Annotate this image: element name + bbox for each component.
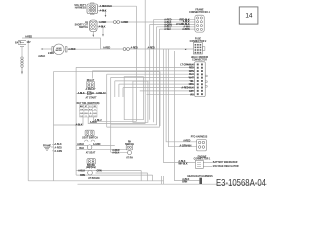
svg-text:A-WH: A-WH xyxy=(164,28,170,31)
svg-text:◄: ◄ xyxy=(184,48,186,51)
svg-text:SWITCH: SWITCH xyxy=(125,144,134,146)
svg-text:CONNECTOR NO.1: CONNECTOR NO.1 xyxy=(189,12,210,14)
svg-text:A-RED: A-RED xyxy=(131,47,138,50)
svg-text:SWITCH: SWITCH xyxy=(79,27,88,29)
svg-text:A-BLK: A-BLK xyxy=(77,143,84,146)
svg-text:A-BLK: A-BLK xyxy=(55,143,62,146)
svg-text:A-BLU: A-BLU xyxy=(95,119,102,122)
svg-text:BRN: BRN xyxy=(80,174,85,177)
svg-text:A-RELAY: A-RELAY xyxy=(86,88,96,91)
svg-text:CONNECTOR 2: CONNECTOR 2 xyxy=(190,41,207,43)
svg-text:A-RED: A-RED xyxy=(68,48,75,51)
svg-text:GRN: GRN xyxy=(97,170,102,173)
svg-text:M1: M1 xyxy=(94,106,97,108)
svg-text:AT RH: AT RH xyxy=(126,156,133,159)
svg-text:PTO HARNESS: PTO HARNESS xyxy=(191,135,208,138)
svg-text:A-RED-BLK: A-RED-BLK xyxy=(100,5,113,8)
svg-text:METER: METER xyxy=(56,50,63,52)
svg-text:BATTERY ENERGIZER: BATTERY ENERGIZER xyxy=(213,161,238,164)
svg-text:A-RED: A-RED xyxy=(148,47,155,50)
svg-text:HEADLIGHT HARNESS: HEADLIGHT HARNESS xyxy=(187,175,213,178)
svg-text:CONNECTOR 1: CONNECTOR 1 xyxy=(194,159,211,161)
svg-text:14: 14 xyxy=(245,12,253,19)
svg-text:A-RELAY: A-RELAY xyxy=(96,92,106,95)
svg-text:A-RED: A-RED xyxy=(121,21,128,24)
svg-text:HARNESS: HARNESS xyxy=(75,7,87,10)
svg-text:A-GRN: A-GRN xyxy=(55,150,63,153)
svg-text:FRAME: FRAME xyxy=(43,144,52,147)
svg-text:A-RED: A-RED xyxy=(183,140,190,143)
svg-text:AT BRAKE: AT BRAKE xyxy=(88,177,100,180)
svg-text:VIO: VIO xyxy=(190,93,194,96)
svg-text:12V: 12V xyxy=(27,42,32,44)
svg-text:A-BLK: A-BLK xyxy=(38,55,45,58)
svg-text:SEAT SWITCH: SEAT SWITCH xyxy=(82,137,98,140)
svg-text:WH-BLK: WH-BLK xyxy=(178,163,187,166)
svg-text:KEY SW. (IGNITION): KEY SW. (IGNITION) xyxy=(77,102,100,105)
svg-text:A-BLK: A-BLK xyxy=(75,123,82,126)
svg-text:SWITCH: SWITCH xyxy=(86,167,95,169)
svg-text:AT START: AT START xyxy=(85,96,97,99)
svg-text:A-BLK: A-BLK xyxy=(78,92,85,95)
svg-text:A-BLK: A-BLK xyxy=(99,25,106,28)
svg-text:A-RED: A-RED xyxy=(99,21,106,24)
svg-text:A-BLK: A-BLK xyxy=(112,152,119,155)
svg-text:A-RED: A-RED xyxy=(55,147,63,150)
svg-text:L1: L1 xyxy=(89,106,91,108)
svg-text:BRN: BRN xyxy=(182,181,187,184)
svg-text:A-GRN: A-GRN xyxy=(93,143,101,146)
svg-text:A-RED: A-RED xyxy=(103,47,110,50)
svg-text:AT SEAT: AT SEAT xyxy=(86,152,96,155)
svg-text:E3-10568A-04: E3-10568A-04 xyxy=(216,178,266,189)
svg-text:2-WH: 2-WH xyxy=(48,52,54,55)
svg-text:VOLTAGE REGULATOR: VOLTAGE REGULATOR xyxy=(213,165,239,168)
svg-text:A-BLK: A-BLK xyxy=(78,170,85,173)
svg-text:A-BRN: A-BRN xyxy=(182,28,190,31)
svg-text:A-BLK: A-BLK xyxy=(100,9,107,12)
svg-text:RELAY: RELAY xyxy=(87,79,95,82)
svg-text:CONNECTOR: CONNECTOR xyxy=(192,59,207,61)
svg-text:A-RED: A-RED xyxy=(25,36,32,39)
svg-text:BLK: BLK xyxy=(79,147,84,150)
svg-text:A-BLK: A-BLK xyxy=(87,92,94,95)
svg-text:A-GRN-WH: A-GRN-WH xyxy=(180,144,192,147)
svg-text:BATT: BATT xyxy=(15,42,22,45)
